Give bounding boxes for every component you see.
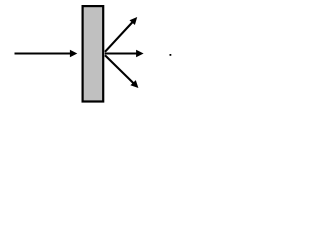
scattered arrowhead right	[136, 50, 144, 57]
scattered arrowhead down-right	[130, 80, 138, 88]
dot	[170, 54, 172, 56]
incident beam arrowhead	[70, 50, 77, 57]
target slab	[83, 6, 104, 101]
scattered arrowhead up-right	[130, 17, 138, 25]
incident beam wire	[15, 52, 72, 54]
scattered wire down-right	[105, 55, 134, 83]
scattered wire right	[105, 52, 138, 54]
scattered wire up-right	[105, 22, 133, 52]
